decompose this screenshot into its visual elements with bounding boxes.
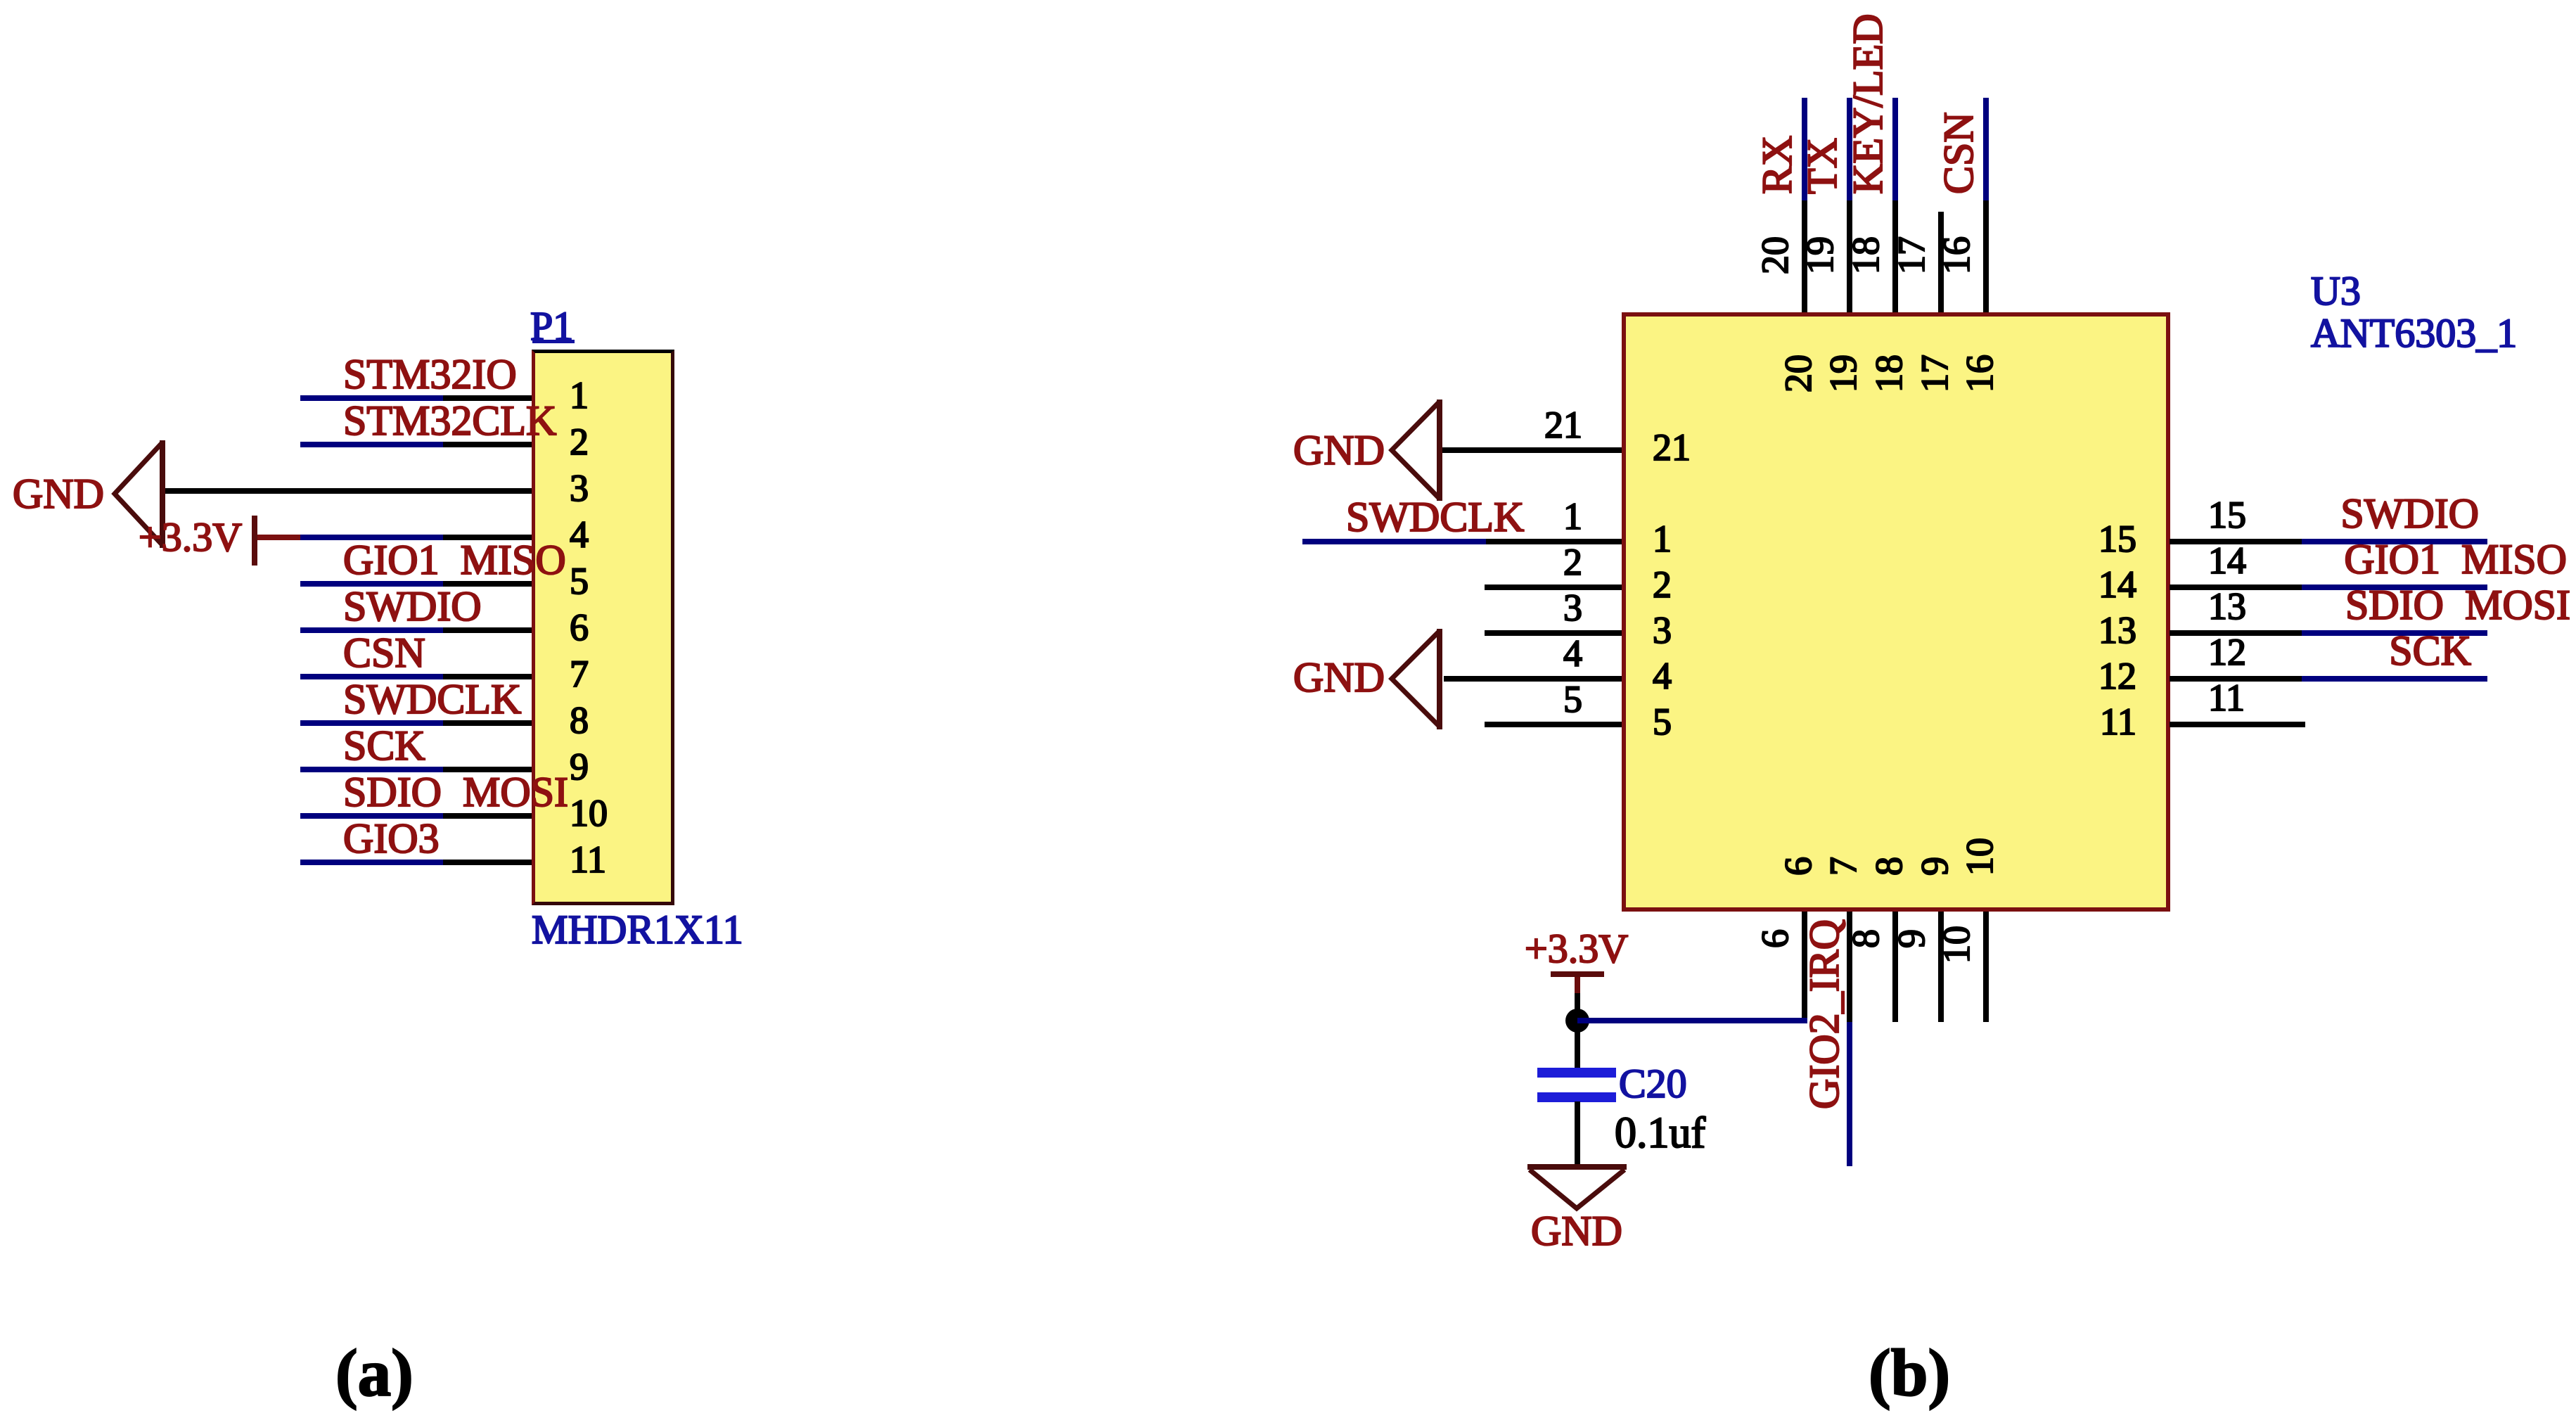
P1 pin number 7 xyxy=(570,655,589,693)
U3 pin 3 number (outside) xyxy=(1498,589,1582,627)
wire pin 14 net xyxy=(2302,585,2487,590)
power symbol +3.3V (b) bar xyxy=(1551,971,1604,977)
capacitor C20 plate 2 xyxy=(1537,1092,1616,1102)
connector P1 body (MHDR1X11) xyxy=(532,350,674,905)
ground symbol (b) bottom xyxy=(1512,1146,1646,1231)
U3 pin 12 number (inside) xyxy=(2061,657,2136,695)
U3 pin 8 number (inside, rotated) xyxy=(1870,857,1908,876)
net label SWDIO xyxy=(2340,492,2479,535)
U3 pin 20 number (outside, rotated) xyxy=(1756,236,1794,274)
net label KEY/LED (rotated) xyxy=(1847,13,1889,194)
wire pin 15 net xyxy=(2302,539,2487,544)
pin 6 stub xyxy=(1802,912,1807,1022)
net label STM32IO xyxy=(343,353,517,395)
power symbol +3.3V (a) bar xyxy=(252,516,257,566)
ground symbol (b) upper-left xyxy=(1361,380,1473,528)
wire pin 3 to GND net xyxy=(165,488,532,494)
net label GIO1_MISO xyxy=(343,539,566,581)
U3 pin 17 number (inside, rotated) xyxy=(1916,354,1954,392)
U3 pin 8 number (outside, rotated) xyxy=(1847,929,1885,948)
wire pin 4 to GND xyxy=(1444,676,1622,682)
U3 pin 16 number (outside, rotated) xyxy=(1937,236,1975,274)
U3 pin 6 number (inside, rotated) xyxy=(1779,857,1817,876)
net label SWDCLK xyxy=(343,678,521,720)
pin 8 stub xyxy=(1892,912,1898,1022)
U3 pin 7 number (inside, rotated) xyxy=(1824,857,1862,876)
U3 pin 2 number (inside) xyxy=(1653,566,1672,603)
+3.3V label (b) xyxy=(1525,928,1628,969)
U3 pin 3 number (inside) xyxy=(1653,611,1672,649)
wire pin 4 net +3.3V xyxy=(300,535,443,540)
U3 pin 18 number (inside, rotated) xyxy=(1870,354,1908,392)
P1 pin number 6 xyxy=(570,608,589,646)
wire pin 13 net xyxy=(2302,630,2487,636)
pin 3 stub xyxy=(1485,630,1622,636)
value ANT6303_1 xyxy=(2311,313,2517,354)
wire pin 7 net xyxy=(300,674,443,679)
+3.3V label (a) xyxy=(139,517,242,558)
wire pin 12 net xyxy=(2302,676,2487,682)
designator C20 xyxy=(1619,1063,1687,1104)
pin 7 stub xyxy=(1847,912,1852,1022)
wire pin 2 net xyxy=(300,442,443,447)
pin 17 stub xyxy=(1938,212,1944,312)
wire pin 9 net xyxy=(300,767,443,772)
designator P1 underline xyxy=(532,340,575,343)
caption (b) xyxy=(1869,1340,1950,1407)
U3 pin 15 number (inside) xyxy=(2061,520,2136,558)
wire pin 7 net GIO2_IRQ xyxy=(1847,1022,1852,1166)
net label CSN (rotated) xyxy=(1937,112,1980,194)
U3 pin 11 number (inside) xyxy=(2061,703,2136,741)
pin 12 stub xyxy=(2170,676,2302,682)
net label GIO1_MISO xyxy=(2344,538,2567,580)
pin 6 stub xyxy=(443,627,532,633)
GND label (a) xyxy=(13,473,104,515)
caption (a) xyxy=(335,1340,414,1407)
value 0.1uf xyxy=(1615,1111,1705,1155)
U3 pin 12 number (outside) xyxy=(2208,633,2246,671)
pin 14 stub xyxy=(2170,585,2302,590)
pin 9 stub xyxy=(443,767,532,772)
pin 2 stub xyxy=(443,442,532,447)
pin 8 stub xyxy=(443,720,532,726)
pin 11 stub xyxy=(2170,722,2305,727)
net label SWDIO xyxy=(343,585,482,627)
pin 10 stub xyxy=(1983,912,1989,1022)
net label GIO2_IRQ (rotated) xyxy=(1803,919,1845,1109)
wire pin 6 net xyxy=(300,627,443,633)
U3 pin 13 number (outside) xyxy=(2208,587,2246,625)
net label RX (rotated) xyxy=(1756,136,1798,194)
U3 pin 5 number (outside) xyxy=(1498,680,1582,718)
U3 pin 14 number (inside) xyxy=(2061,566,2136,603)
designator P1 xyxy=(530,306,573,347)
U3 pin 4 number (inside) xyxy=(1653,657,1672,695)
wire junction to C20 xyxy=(1575,1023,1580,1070)
net label SDIO_MOSI xyxy=(2345,584,2570,626)
U3 pin 6 number (outside, rotated) xyxy=(1756,929,1794,948)
pin 7 stub xyxy=(443,674,532,679)
wire pin 16 net xyxy=(1983,98,1989,200)
P1 pin number 2 xyxy=(570,423,589,461)
pin 1 stub xyxy=(1486,539,1622,544)
power stub (b) xyxy=(1575,977,1580,993)
wire C20 to GND xyxy=(1575,1101,1580,1165)
P1 pin number 3 xyxy=(570,469,589,507)
pin 16 stub xyxy=(1983,200,1989,312)
GND label (b) lower-left xyxy=(1293,656,1385,698)
pin 4 stub xyxy=(443,535,532,540)
U3 pin 9 number (outside, rotated) xyxy=(1892,929,1930,948)
net label SCK xyxy=(343,724,425,767)
U3 pin 5 number (inside) xyxy=(1653,703,1672,741)
pin 5 stub xyxy=(1485,722,1622,727)
U3 pin 20 number (inside, rotated) xyxy=(1779,354,1817,392)
wire pin 10 net xyxy=(300,813,443,819)
P1 pin number 9 xyxy=(570,748,589,786)
net label SCK xyxy=(2389,630,2471,672)
U3 pin 4 number (outside) xyxy=(1498,634,1582,672)
U3 pin 21 number (outside) xyxy=(1498,406,1582,444)
pin 19 stub xyxy=(1847,200,1852,312)
pin 5 stub xyxy=(443,581,532,587)
wire pin 5 net xyxy=(300,581,443,587)
wire pin 1 net xyxy=(300,395,443,401)
net label TX (rotated) xyxy=(1801,138,1843,194)
GND label (b) bottom xyxy=(1531,1210,1622,1252)
wire pin 4 power stub xyxy=(255,535,300,540)
net label SWDCLK xyxy=(1346,496,1524,538)
net label STM32CLK xyxy=(343,400,556,442)
U3 pin 14 number (outside) xyxy=(2208,542,2246,580)
ground symbol (a) xyxy=(84,422,197,577)
U3 pin 1 number (outside) xyxy=(1498,497,1582,535)
pin 9 stub xyxy=(1938,912,1944,1022)
wire pin 1 net SWDCLK xyxy=(1302,539,1486,544)
junction dot xyxy=(1565,1009,1589,1033)
U3 pin 10 number (outside, rotated) xyxy=(1937,926,1975,964)
wire pin 20 net xyxy=(1802,98,1807,200)
wire pin 18 net xyxy=(1892,98,1898,200)
pin 18 stub xyxy=(1892,200,1898,312)
U3 pin 11 number (outside) xyxy=(2208,679,2245,717)
wire power to junction xyxy=(1575,993,1580,1021)
wire pin 21 to GND xyxy=(1442,447,1622,453)
pin 15 stub xyxy=(2170,539,2302,544)
U3 pin 17 number (outside, rotated) xyxy=(1892,236,1930,274)
U3 pin 9 number (inside, rotated) xyxy=(1916,857,1954,876)
designator U3 xyxy=(2311,271,2361,312)
U3 pin 18 number (outside, rotated) xyxy=(1847,236,1885,274)
P1 pin number 1 xyxy=(570,376,589,414)
GND label (b) upper-left xyxy=(1293,429,1385,471)
net label SDIO_MOSI xyxy=(343,771,568,813)
pin 13 stub xyxy=(2170,630,2302,636)
pin 2 stub xyxy=(1485,585,1622,590)
wire pin 8 net xyxy=(300,720,443,726)
U3 pin 19 number (inside, rotated) xyxy=(1824,354,1862,392)
U3 pin 19 number (outside, rotated) xyxy=(1801,236,1839,274)
pin 1 stub xyxy=(443,395,532,401)
U3 pin 2 number (outside) xyxy=(1498,543,1582,581)
U3 pin 1 number (inside) xyxy=(1653,520,1672,558)
capacitor C20 plate 1 xyxy=(1537,1068,1616,1078)
P1 pin number 11 xyxy=(570,841,606,879)
U3 pin 21 number (inside) xyxy=(1653,428,1691,466)
U3 pin 10 number (inside, rotated) xyxy=(1961,838,1999,876)
U3 pin 13 number (inside) xyxy=(2061,611,2136,649)
wire pin 19 net xyxy=(1847,98,1852,200)
value MHDR1X11 xyxy=(532,909,743,950)
pin 20 stub xyxy=(1802,200,1807,312)
U3 pin 16 number (inside, rotated) xyxy=(1961,354,1999,392)
pin 10 stub xyxy=(443,813,532,819)
U3 pin 15 number (outside) xyxy=(2208,496,2246,534)
P1 pin number 10 xyxy=(570,794,608,832)
wire pin 11 net xyxy=(300,860,443,865)
net label GIO3 xyxy=(343,817,440,860)
wire junction to pin 6 xyxy=(1577,1018,1807,1023)
pin 11 stub xyxy=(443,860,532,865)
P1 pin number 8 xyxy=(570,701,589,739)
P1 pin number 4 xyxy=(570,516,589,554)
P1 pin number 5 xyxy=(570,562,589,600)
ground symbol (b) lower-left xyxy=(1361,608,1473,756)
IC U3 body (ANT6303_1) xyxy=(1622,312,2170,912)
net label CSN xyxy=(343,632,425,674)
